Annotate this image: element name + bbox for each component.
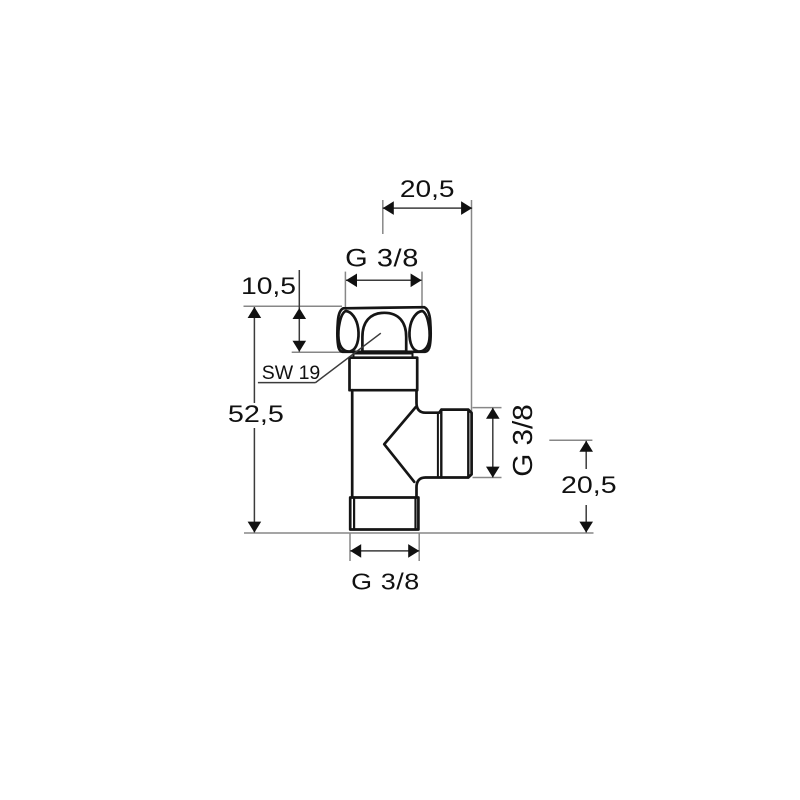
svg-text:52,5: 52,5 bbox=[228, 400, 284, 427]
svg-text:G 3/8: G 3/8 bbox=[345, 243, 419, 272]
svg-text:20,5: 20,5 bbox=[561, 471, 617, 498]
svg-text:G 3/8: G 3/8 bbox=[508, 404, 539, 477]
svg-text:SW 19: SW 19 bbox=[262, 362, 321, 384]
svg-text:G 3/8: G 3/8 bbox=[351, 569, 420, 595]
svg-text:10,5: 10,5 bbox=[241, 272, 296, 299]
svg-text:20,5: 20,5 bbox=[400, 175, 455, 203]
